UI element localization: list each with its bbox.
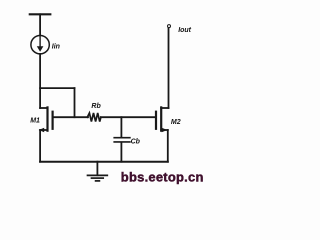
svg-text:Rb: Rb	[91, 103, 101, 110]
svg-text:bbs.eetop.cn: bbs.eetop.cn	[121, 169, 204, 184]
svg-text:M2: M2	[171, 119, 181, 126]
svg-text:Iin: Iin	[52, 43, 60, 50]
svg-text:Cb: Cb	[131, 138, 141, 145]
svg-text:M1: M1	[30, 118, 40, 125]
svg-text:Iout: Iout	[178, 27, 191, 34]
